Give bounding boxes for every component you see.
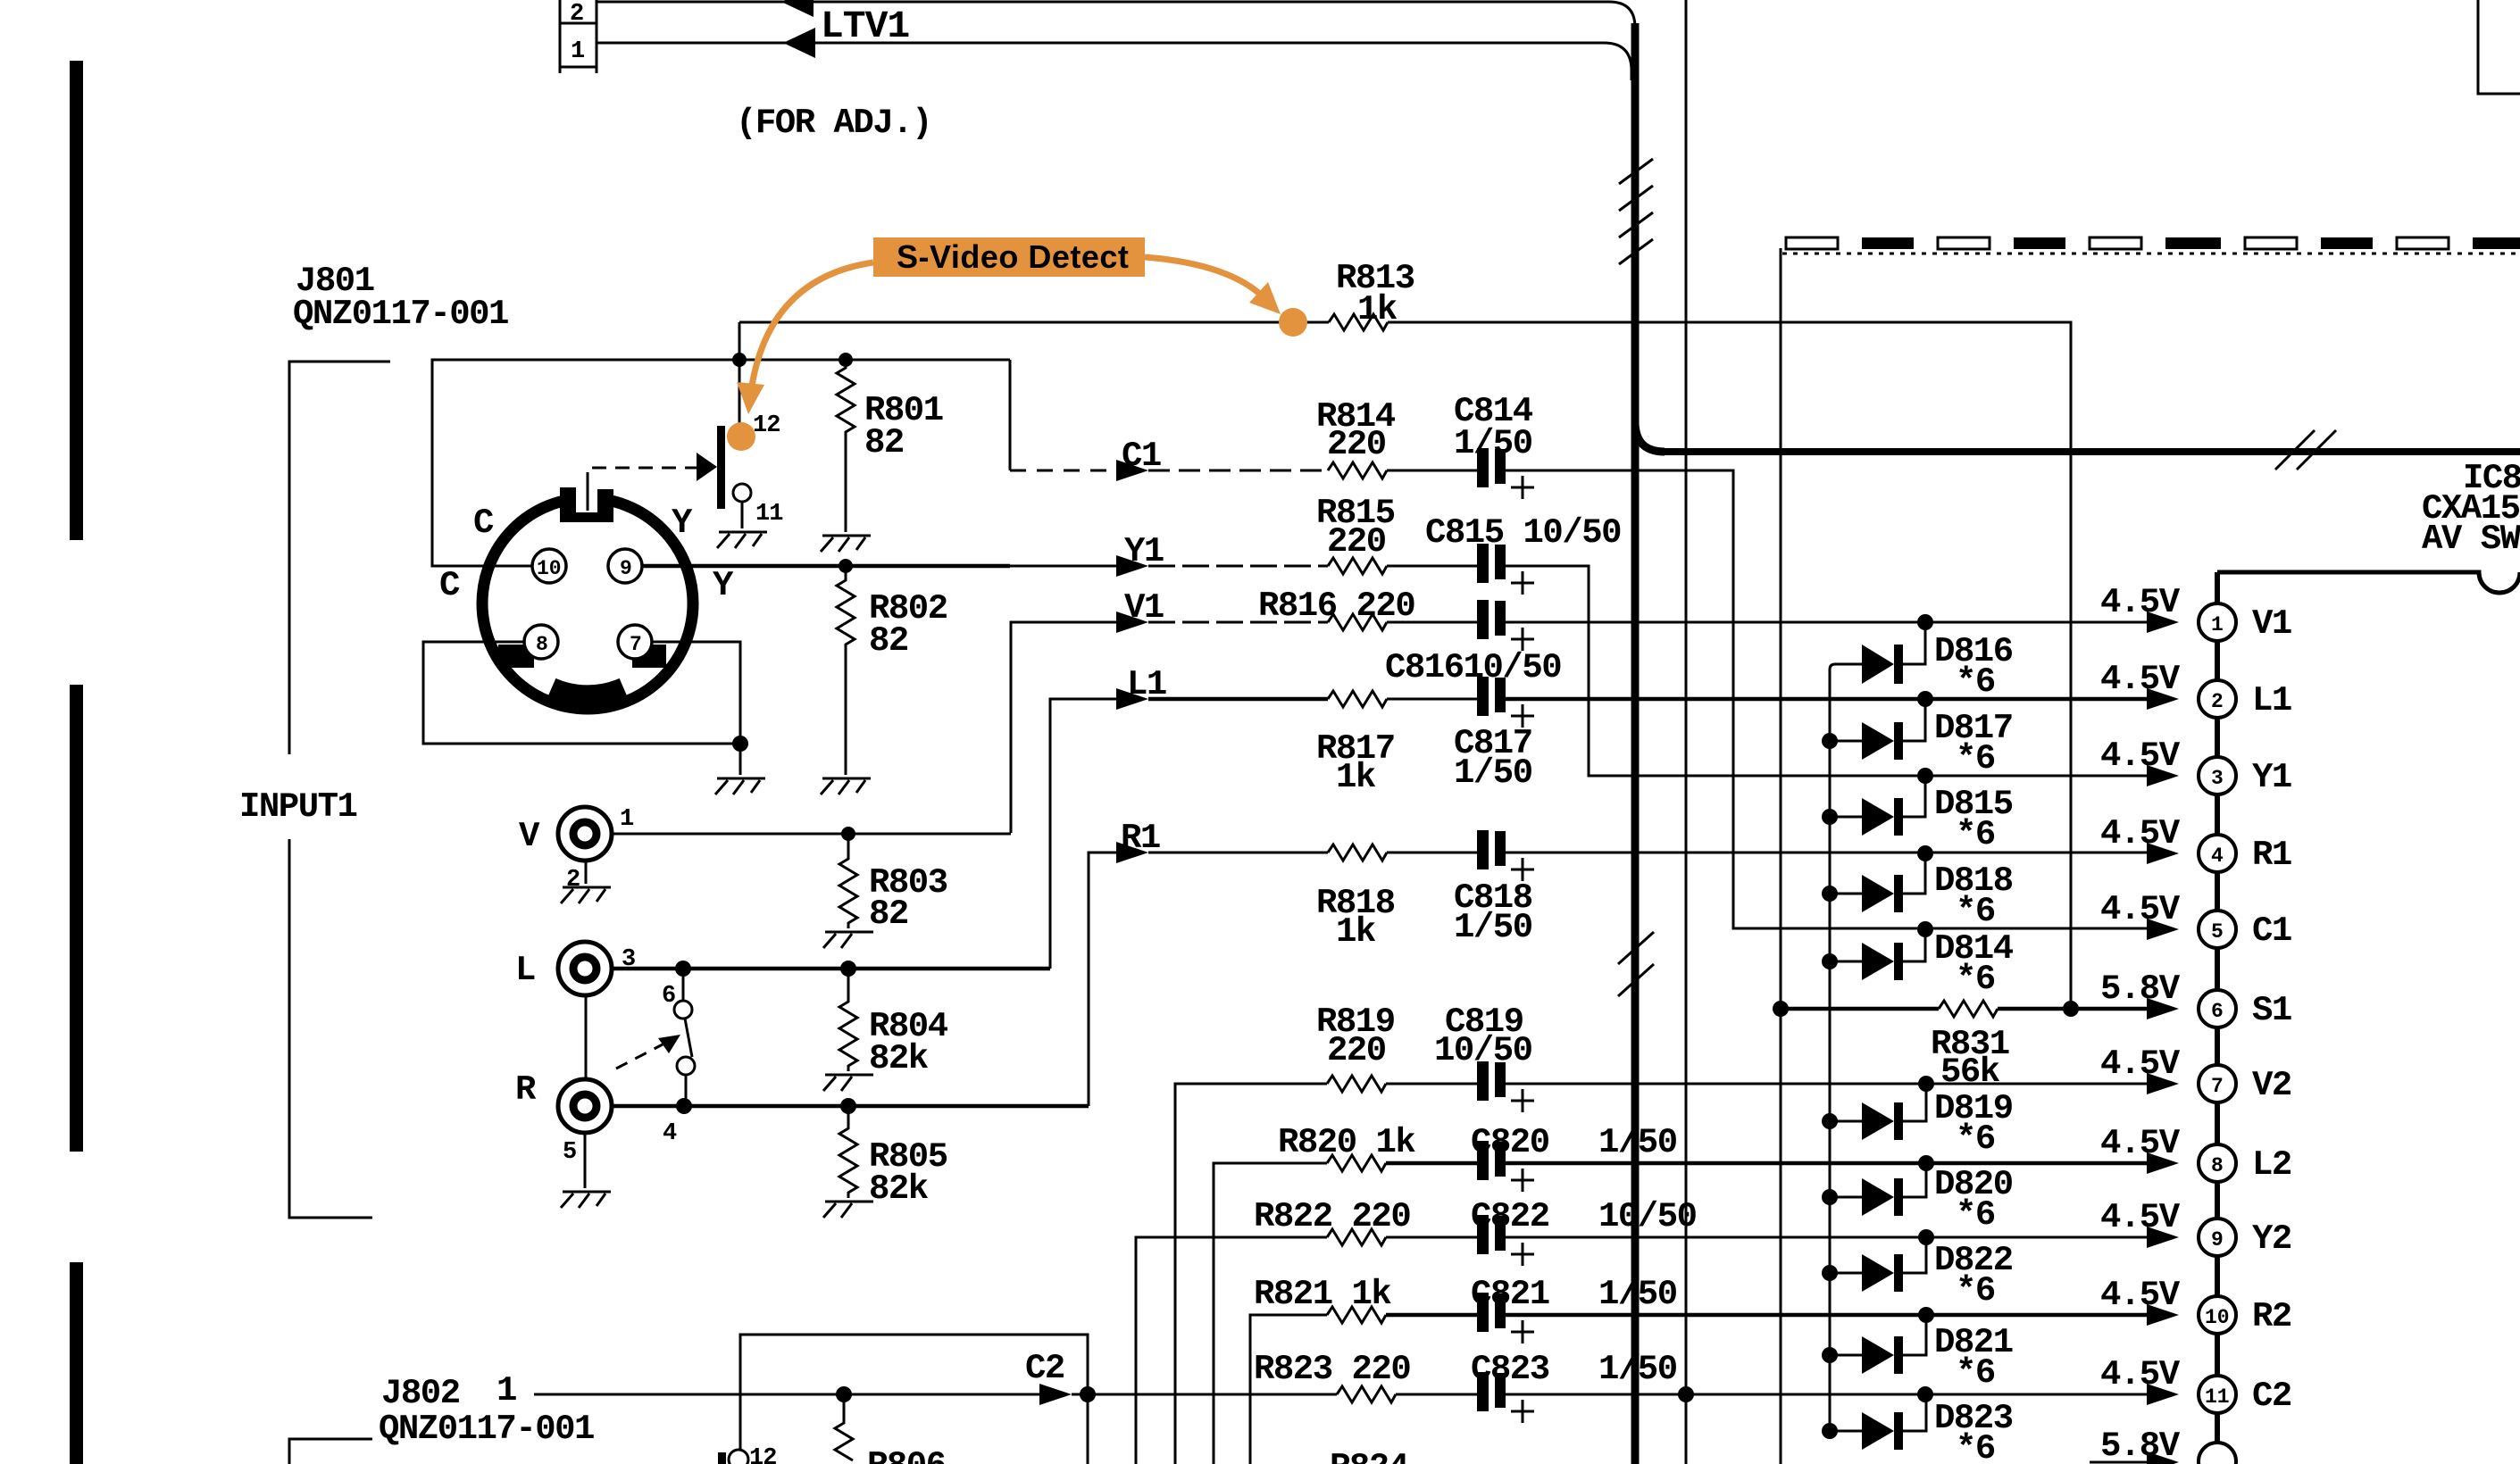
IC8 pin 10 <box>2199 1296 2236 1334</box>
J801 pin 8 <box>524 625 558 659</box>
resistor R802 <box>837 566 855 656</box>
wire switch bottom <box>685 1075 688 1106</box>
resistor R818 <box>1328 844 1387 861</box>
resistor R813 <box>1329 314 1388 330</box>
svg-text:220: 220 <box>1327 425 1386 464</box>
capacitor C814 <box>1477 448 1534 499</box>
junction L2 pin row <box>1918 1155 1934 1171</box>
hash marks on vertical bus (lower) <box>1618 932 1654 996</box>
arrow into pin5 <box>2147 919 2179 940</box>
wire R1 row mid <box>1148 852 1328 854</box>
svg-text:82k: 82k <box>869 1169 929 1209</box>
svg-text:7: 7 <box>2211 1075 2224 1098</box>
wire R813 to S-video detect bus <box>1388 322 2071 1009</box>
annotation curve to R813 <box>1145 257 1268 302</box>
resistor R822 <box>1327 1229 1386 1245</box>
transistor source circle pin 11 <box>733 484 751 502</box>
svg-text:C2: C2 <box>1025 1349 1064 1388</box>
ground (V jack) <box>561 887 611 903</box>
svg-text:1/50: 1/50 <box>1454 753 1532 793</box>
svg-text:1: 1 <box>496 1371 516 1410</box>
svg-text:INPUT1: INPUT1 <box>239 787 357 827</box>
svg-text:V1: V1 <box>2252 604 2291 644</box>
jack L (INPUT1 audio left) <box>558 942 612 995</box>
dashed block border top <box>1786 237 2520 249</box>
annotation node dot (transistor drain) <box>727 422 755 451</box>
arrow R1 <box>1116 842 1148 863</box>
wire R814 to C814 <box>1387 470 1479 472</box>
wire Y2 riser <box>1136 1237 1327 1464</box>
svg-text:11: 11 <box>755 501 783 528</box>
wire L jack row <box>612 967 1050 971</box>
junction switch bottom on R row <box>676 1098 692 1114</box>
junction R801 top <box>839 353 853 367</box>
diode D818 <box>1822 853 1925 912</box>
svg-text:1/50: 1/50 <box>1454 424 1532 463</box>
left margin bar 1 <box>70 61 83 540</box>
capacitor C821 <box>1477 1293 1534 1343</box>
svg-text:6: 6 <box>662 983 675 1010</box>
wire LTV1 pin1 <box>597 43 1631 80</box>
IC8 pin 8 <box>2199 1144 2236 1182</box>
svg-text:Y1: Y1 <box>2252 758 2291 797</box>
wire L1 row to pin2 <box>1506 697 2147 702</box>
diode D820 <box>1822 1163 1926 1216</box>
svg-text:4.5V: 4.5V <box>2100 583 2181 622</box>
svg-text:8: 8 <box>2211 1154 2224 1177</box>
ground (R802) <box>821 778 871 794</box>
jack V (INPUT1 video) <box>558 807 612 861</box>
resistor R815 <box>1328 558 1387 574</box>
svg-text:LTV1: LTV1 <box>821 4 909 48</box>
arrow into pin7 <box>2147 1073 2179 1094</box>
resistor R820 <box>1327 1155 1386 1171</box>
arrow C1 <box>1116 460 1148 481</box>
svg-text:10/50: 10/50 <box>1598 1197 1697 1236</box>
svg-text:Y: Y <box>713 566 734 605</box>
resistor R803 <box>839 834 857 928</box>
wire R2 row to pin10 <box>1506 1313 2147 1318</box>
arrow into pin8 <box>2147 1152 2179 1174</box>
wire pin9 luma row start <box>642 564 1010 569</box>
wire V jack to ground <box>585 861 588 884</box>
transistor gate dashed lead <box>587 487 589 511</box>
arrow L1 <box>1116 688 1148 710</box>
arrow into pin11 <box>2147 1384 2179 1405</box>
left margin bar 2 <box>70 685 83 1152</box>
wire R802 to ground <box>845 656 847 775</box>
svg-text:6: 6 <box>2211 1000 2224 1023</box>
svg-text:1k: 1k <box>1336 758 1376 797</box>
diode D821 <box>1822 1315 1926 1374</box>
svg-text:V2: V2 <box>2252 1066 2291 1105</box>
svg-text:QNZ0117-001: QNZ0117-001 <box>379 1410 594 1449</box>
svg-text:Y: Y <box>672 503 693 543</box>
bracket J802 group <box>289 1439 372 1464</box>
hash marks on vertical bus (upper) <box>1619 159 1653 264</box>
switch lever <box>685 1019 692 1057</box>
svg-text:L2: L2 <box>2252 1145 2291 1185</box>
IC8 pin 12 (partial) <box>2199 1443 2236 1464</box>
svg-text:4.5V: 4.5V <box>2100 1355 2181 1394</box>
J802 feed line top <box>740 1335 1088 1464</box>
svg-text:L1: L1 <box>2252 681 2291 720</box>
wire V1 row mid <box>1148 621 1328 624</box>
wire R801 to ground <box>845 473 847 532</box>
svg-text:R816 220: R816 220 <box>1258 586 1414 626</box>
svg-text:5.8V: 5.8V <box>2100 969 2181 1009</box>
svg-text:82k: 82k <box>869 1039 929 1078</box>
svg-text:4.5V: 4.5V <box>2100 1198 2181 1237</box>
wire R823 to C823 <box>1396 1393 1479 1396</box>
diode D819 <box>1822 1084 1926 1140</box>
bracket INPUT1 group (upper part, J801) <box>289 362 390 754</box>
J801 pin 7 <box>618 625 652 659</box>
svg-text:*6: *6 <box>1956 662 1995 702</box>
svg-text:*6: *6 <box>1956 1353 1995 1393</box>
arrow into pin1 <box>2147 611 2179 633</box>
wire R831 to S1 node <box>1998 1007 2147 1011</box>
svg-text:S1: S1 <box>2252 991 2291 1030</box>
resistor R816 <box>1328 614 1387 630</box>
arrow into pin3 <box>2147 765 2179 786</box>
wire R818 to C818 <box>1387 852 1479 854</box>
svg-text:4.5V: 4.5V <box>2100 736 2181 776</box>
bus corner curve to horizontal bus <box>1635 423 1665 452</box>
svg-text:82: 82 <box>869 621 908 661</box>
capacitor C816 <box>1477 600 1534 651</box>
junction shield node <box>732 736 748 752</box>
transistor gate arrow <box>697 453 717 481</box>
capacitor C817 <box>1477 677 1534 728</box>
switch actuate dashed arrow <box>616 1044 663 1069</box>
svg-text:1k: 1k <box>1336 912 1376 952</box>
svg-text:*6: *6 <box>1956 1119 1995 1159</box>
svg-text:4.5V: 4.5V <box>2100 814 2181 853</box>
junction drain node <box>732 353 747 367</box>
svg-text:10: 10 <box>2205 1306 2230 1329</box>
svg-text:*6: *6 <box>1956 1429 1995 1464</box>
arrowhead pin1 wire <box>783 28 815 58</box>
wire Y1 row <box>1010 565 1116 568</box>
main bus horizontal (thick) <box>1659 448 2520 455</box>
arrowhead pin2 wire <box>781 0 814 17</box>
svg-text:Y2: Y2 <box>2252 1219 2291 1259</box>
wire switch top <box>682 977 685 1001</box>
svg-text:J802: J802 <box>381 1374 460 1413</box>
junction switch top on L row <box>675 961 691 977</box>
svg-text:*6: *6 <box>1956 1195 1995 1235</box>
wire vertical feed line <box>1685 0 1688 1464</box>
IC8 pin 4 <box>2199 835 2236 872</box>
wire R819 to C819 <box>1386 1083 1479 1086</box>
wire R1 riser from R jack <box>1089 853 1116 1106</box>
arrow into pin2 <box>2147 688 2179 710</box>
arrow into pin10 <box>2147 1304 2179 1326</box>
IC8 pin 11 <box>2199 1376 2236 1413</box>
wire Y1 row mid <box>1148 565 1328 568</box>
ground (R801) <box>821 536 871 552</box>
svg-text:5: 5 <box>563 1139 576 1166</box>
svg-text:1/50: 1/50 <box>1454 908 1532 947</box>
arrow into pin9 <box>2147 1227 2179 1248</box>
diode D822 <box>1822 1237 1926 1292</box>
svg-text:4: 4 <box>663 1120 677 1147</box>
junction R1 pin row <box>1917 845 1933 861</box>
wire R815 to C815 <box>1387 565 1479 568</box>
junction R804 top <box>840 961 856 977</box>
main bus vertical (thick) <box>1631 23 1640 1464</box>
ground (R805) <box>823 1202 873 1218</box>
annotation node dot (R813 node) <box>1279 308 1307 337</box>
svg-text:R2: R2 <box>2252 1297 2291 1336</box>
diode D816 <box>1835 622 1925 684</box>
junction C1 pin row <box>1917 921 1933 937</box>
svg-text:*6: *6 <box>1956 1271 1995 1310</box>
connector LTV1 pin box <box>560 0 597 73</box>
bracket INPUT1 group (lower part) <box>289 839 372 1218</box>
wire pin7 shield <box>652 642 740 744</box>
capacitor C820 <box>1477 1141 1534 1192</box>
junction R805 top <box>840 1098 856 1114</box>
resistor R819 <box>1327 1076 1386 1092</box>
resistor R817 <box>1328 691 1387 707</box>
capacitor C823 <box>1477 1372 1534 1423</box>
wire V1 riser from V jack <box>1011 622 1116 833</box>
ground (R804) <box>823 1075 873 1091</box>
IC8 pin 1 <box>2199 603 2236 641</box>
svg-text:12: 12 <box>749 1445 776 1464</box>
wire C1 row dashed lead <box>1009 360 1012 470</box>
wire L2 riser <box>1214 1163 1327 1464</box>
svg-text:C81610/50: C81610/50 <box>1385 648 1561 687</box>
wire C1 row to riser <box>1506 470 2147 928</box>
wire R822 to C822 <box>1386 1236 1479 1239</box>
svg-text:2: 2 <box>570 1 583 28</box>
transistor drain wire from R813 node <box>738 322 741 428</box>
junction J802 riser on C2 row <box>1080 1386 1096 1402</box>
svg-text:5: 5 <box>2211 920 2224 944</box>
wire R1 row to pin4 <box>1506 852 2147 854</box>
wire V2 riser <box>1175 1084 1327 1464</box>
svg-text:4.5V: 4.5V <box>2100 1124 2181 1163</box>
corner bracket top right <box>2478 0 2520 94</box>
wire R817 to C817 <box>1387 698 1479 701</box>
dashed block border top inner dotted line <box>1782 253 2520 255</box>
diode D815 <box>1822 776 1925 836</box>
resistor R804 <box>839 969 857 1071</box>
svg-text:*6: *6 <box>1956 815 1995 854</box>
svg-text:C1: C1 <box>2252 911 2291 951</box>
svg-text:220: 220 <box>1327 522 1386 561</box>
wire pin8 shield <box>423 642 740 744</box>
capacitor C822 <box>1477 1215 1534 1266</box>
svg-text:2: 2 <box>2211 690 2224 713</box>
svg-text:8: 8 <box>536 633 548 656</box>
wire LTV1 pin2 <box>597 2 1635 28</box>
svg-text:82: 82 <box>869 894 908 934</box>
diode D823 <box>1822 1394 1926 1450</box>
wire C2 row mid <box>1072 1393 1337 1396</box>
annotation S-Video Detect box <box>873 237 1145 277</box>
resistor R823 <box>1337 1386 1396 1402</box>
svg-text:1: 1 <box>620 806 634 833</box>
capacitor C815 <box>1477 544 1534 595</box>
svg-text:5.8V: 5.8V <box>2100 1427 2181 1464</box>
svg-text:R806: R806 <box>867 1446 946 1464</box>
svg-text:1: 1 <box>2211 613 2224 636</box>
J801 pin 9 <box>608 549 642 583</box>
capacitor C818 <box>1477 830 1534 881</box>
wire R jack to ground <box>584 1133 587 1188</box>
arrow into pin12 (partial) <box>2147 1452 2179 1464</box>
IC8 pin 9 <box>2199 1219 2236 1256</box>
svg-text:4.5V: 4.5V <box>2100 1044 2181 1084</box>
svg-text:C2: C2 <box>2252 1377 2291 1416</box>
wire L1 row mid <box>1148 697 1328 702</box>
svg-text:C: C <box>473 503 494 543</box>
svg-text:R821 1k: R821 1k <box>1254 1275 1391 1314</box>
svg-text:R824: R824 <box>1330 1448 1409 1464</box>
resistor R805 <box>839 1106 857 1198</box>
IC8 pin 5 <box>2199 911 2236 948</box>
resistor R821 <box>1327 1307 1386 1323</box>
svg-text:R: R <box>515 1070 537 1110</box>
wire shield to ground <box>739 744 742 775</box>
wire V jack row <box>612 833 1011 836</box>
resistor R801 <box>837 360 855 473</box>
node R813 start / wire R813 row <box>739 321 1329 324</box>
ground (R803) <box>823 932 873 948</box>
hash marks on horizontal bus <box>2275 430 2336 470</box>
junction Y1 pin row <box>1917 768 1933 784</box>
IC8 body outline with notch <box>2217 572 2520 593</box>
svg-text:11: 11 <box>2205 1385 2230 1409</box>
resistor R814 <box>1328 462 1387 478</box>
svg-text:4.5V: 4.5V <box>2100 660 2181 699</box>
svg-text:R822 220: R822 220 <box>1254 1197 1410 1236</box>
wire R jack row <box>612 1104 1089 1109</box>
svg-text:12: 12 <box>753 412 780 439</box>
ground (connector shield) <box>715 778 765 794</box>
wire C1 row <box>1148 470 1328 472</box>
wire source to ground <box>741 502 744 528</box>
svg-text:R823 220: R823 220 <box>1254 1350 1410 1389</box>
wire V2 row to pin7 <box>1506 1083 2147 1086</box>
svg-text:R1: R1 <box>2252 836 2291 875</box>
arrow V1 <box>1116 611 1148 633</box>
wire R820 to C820 <box>1386 1161 1479 1166</box>
diode bias rail <box>1830 664 1835 1434</box>
IC8 pin column line <box>2215 572 2220 1464</box>
svg-text:220: 220 <box>1327 1031 1386 1070</box>
switch S (L/R mono) contact 6 <box>674 1001 692 1019</box>
svg-text:C: C <box>439 566 460 605</box>
diode D814 <box>1822 929 1925 980</box>
arrow C2 <box>1039 1384 1072 1405</box>
junction C2 feed crossing <box>1678 1386 1694 1402</box>
svg-text:82: 82 <box>864 423 904 462</box>
svg-text:10: 10 <box>537 557 562 580</box>
svg-text:9: 9 <box>2211 1228 2224 1252</box>
diode D817 <box>1822 699 1925 760</box>
wire C2 row to pin11 <box>1506 1393 2147 1396</box>
arrow Y1 <box>1116 555 1148 577</box>
resistor R831 <box>1939 1001 1998 1017</box>
svg-text:R820 1k: R820 1k <box>1278 1123 1415 1162</box>
capacitor C819 <box>1477 1061 1534 1112</box>
junction V1 pin row <box>1917 614 1933 630</box>
junction R803 top <box>841 827 855 841</box>
transistor Q (S-video detect switch) channel bar <box>717 426 725 509</box>
wire R2 riser <box>1250 1315 1327 1464</box>
switch contact lower <box>677 1057 695 1075</box>
junction L1 pin row <box>1917 691 1933 707</box>
J801 pin 10 <box>532 549 566 583</box>
wire 5.8V rail vertical <box>1780 248 1782 1464</box>
wire R821 to C821 <box>1386 1313 1479 1318</box>
junction R806 top <box>836 1386 852 1402</box>
svg-text:4.5V: 4.5V <box>2100 890 2181 929</box>
junction S1 left <box>1773 1001 1789 1017</box>
transistor Q (J802 S-video detect, clipped) <box>718 1445 776 1464</box>
wire V1 row to pin1 <box>1506 621 2147 624</box>
svg-text:S-Video Detect: S-Video Detect <box>897 238 1129 275</box>
svg-text:10/50: 10/50 <box>1434 1031 1532 1070</box>
svg-text:1: 1 <box>571 38 585 65</box>
svg-text:C815 10/50: C815 10/50 <box>1425 513 1621 553</box>
svg-text:9: 9 <box>620 557 632 580</box>
svg-text:(FOR ADJ.): (FOR ADJ.) <box>736 104 931 143</box>
svg-text:AV SW: AV SW <box>2422 520 2520 559</box>
wire R816 to C816 <box>1387 621 1479 624</box>
IC8 pin 2 <box>2199 680 2236 718</box>
junction C2 pin row <box>1917 1386 1933 1402</box>
junction V2 pin row <box>1918 1076 1934 1092</box>
arrow into pin4 <box>2147 843 2179 864</box>
svg-text:*6: *6 <box>1956 892 1995 931</box>
wire L shell to R shell <box>585 995 588 1080</box>
svg-text:7: 7 <box>630 633 642 656</box>
svg-text:*6: *6 <box>1956 960 1995 999</box>
svg-text:4: 4 <box>2211 844 2224 868</box>
svg-text:3: 3 <box>2211 767 2224 790</box>
ground (transistor source) <box>717 532 767 548</box>
wire L2 row to pin8 <box>1506 1161 2147 1166</box>
left margin bar 3 <box>70 1262 83 1464</box>
wire C2 row left <box>534 1393 1039 1396</box>
wire Y1 to pin3 riser <box>1506 566 2147 776</box>
J801 S-video mini-DIN connector body <box>482 478 693 709</box>
svg-text:V: V <box>519 817 540 856</box>
wire S1 row <box>1781 1007 1939 1011</box>
IC8 pin 6 <box>2199 990 2236 1027</box>
jack R (INPUT1 audio right) <box>558 1079 612 1133</box>
junction R802 top <box>839 559 853 573</box>
wire L1 riser from L jack <box>1050 699 1116 969</box>
svg-text:*6: *6 <box>1956 739 1995 778</box>
svg-text:56k: 56k <box>1940 1052 2000 1092</box>
wire Y2 row to pin9 <box>1506 1236 2147 1239</box>
svg-text:L: L <box>515 951 535 990</box>
resistor R806 (clipped) <box>835 1394 853 1460</box>
wire pin10 chroma up-and-over <box>432 360 1010 566</box>
ground (R jack) <box>561 1192 611 1208</box>
svg-text:QNZ0117-001: QNZ0117-001 <box>293 295 508 334</box>
svg-text:4.5V: 4.5V <box>2100 1276 2181 1315</box>
IC8 pin 3 <box>2199 757 2236 794</box>
arrow into pin6 <box>2147 998 2179 1019</box>
